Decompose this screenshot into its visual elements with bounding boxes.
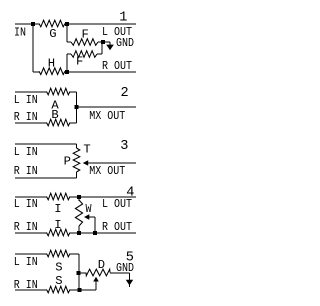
svg-text:S: S	[55, 274, 62, 288]
resistor F bottom	[71, 51, 97, 58]
wire vertical from G junction down to F top row	[66, 24, 68, 42]
svg-text:MX OUT: MX OUT	[89, 164, 125, 178]
wire B to mix junction	[70, 122, 77, 124]
svg-text:I: I	[54, 218, 61, 232]
ground symbol arrow	[129, 273, 131, 287]
wire sum node to resistor D	[79, 272, 86, 274]
node L OUT wire	[70, 196, 136, 198]
svg-text:L IN: L IN	[14, 145, 38, 159]
svg-text:R IN: R IN	[14, 278, 38, 292]
resistor S bottom	[47, 286, 71, 293]
wire F top to GND tap	[98, 41, 110, 43]
potentiometer wiper arrow	[83, 160, 88, 165]
svg-text:2: 2	[121, 86, 129, 101]
resistor B	[47, 119, 71, 126]
node IN wire	[15, 23, 39, 25]
node L IN wire	[15, 91, 47, 93]
resistor I bottom	[47, 229, 71, 236]
junction dot pot top	[77, 195, 81, 199]
junction dot sum node	[77, 271, 81, 275]
node R OUT wire	[70, 232, 136, 234]
node MX OUT wire	[77, 106, 137, 108]
potentiometer wiper arrow	[84, 214, 89, 219]
wire elbow to resistor F top	[67, 41, 71, 43]
svg-text:R IN: R IN	[14, 110, 38, 124]
node R IN wire	[15, 122, 47, 124]
wire S top to sum junction	[70, 253, 79, 255]
svg-text:3: 3	[120, 139, 128, 154]
wire H row to R OUT	[33, 71, 39, 73]
node L IN wire	[15, 196, 47, 198]
svg-text:R OUT: R OUT	[102, 59, 132, 73]
potentiometer W vertical	[78, 197, 80, 201]
junction dot mix node	[75, 105, 79, 109]
svg-text:L OUT: L OUT	[102, 197, 132, 211]
svg-text:IN: IN	[14, 25, 26, 39]
wire D to ground	[110, 272, 130, 274]
node L IN wire	[15, 253, 47, 255]
wire G to junction	[65, 23, 136, 25]
svg-text:L IN: L IN	[14, 197, 38, 211]
node R IN wire	[15, 289, 47, 291]
node R IN wire	[15, 232, 47, 234]
resistor F top	[71, 39, 98, 46]
junction dot wiper to R wire	[93, 231, 97, 235]
svg-text:S: S	[55, 261, 62, 275]
node L IN wire	[15, 143, 77, 145]
svg-text:MX OUT: MX OUT	[89, 109, 125, 123]
svg-text:R OUT: R OUT	[102, 220, 132, 234]
svg-text:P: P	[64, 154, 71, 168]
wire F bottom right elbow	[97, 53, 102, 55]
svg-text:R IN: R IN	[14, 220, 38, 234]
wire S bottom to sum junction	[70, 289, 96, 291]
wire vertical from GND junction down to F bottom row	[101, 44, 103, 54]
junction dot after H	[65, 70, 69, 74]
svg-text:F: F	[82, 27, 89, 41]
svg-text:1: 1	[119, 11, 127, 26]
svg-text:L IN: L IN	[14, 255, 38, 269]
svg-text:B: B	[51, 108, 58, 122]
wire vertical from IN junction down to H row	[32, 24, 34, 72]
junction dot at IN split	[31, 22, 35, 26]
wire F bottom left elbow down to R row	[67, 53, 71, 55]
junction dot pot bottom	[77, 231, 81, 235]
resistor G	[39, 20, 65, 27]
svg-text:T: T	[83, 142, 90, 156]
svg-text:H: H	[48, 57, 55, 71]
resistor D	[86, 269, 110, 276]
junction dot at GND tap	[101, 40, 105, 44]
svg-text:GND: GND	[116, 36, 134, 50]
resistor I top	[47, 193, 71, 200]
junction dot after G	[65, 22, 69, 26]
svg-text:GND: GND	[116, 261, 134, 275]
junction dot on R wire below wiper	[78, 288, 82, 292]
potentiometer P vertical	[76, 144, 78, 148]
svg-text:L IN: L IN	[14, 93, 38, 107]
ground symbol arrow	[109, 42, 111, 49]
resistor H	[39, 68, 65, 75]
resistor S top	[47, 250, 71, 257]
svg-text:F: F	[76, 54, 83, 68]
potentiometer D wiper arrow up	[95, 280, 97, 290]
svg-text:W: W	[86, 202, 93, 216]
node R IN wire	[15, 177, 77, 179]
svg-text:G: G	[49, 27, 56, 41]
node MX OUT wire	[88, 162, 137, 164]
wire A to mix junction	[70, 91, 77, 93]
resistor A	[47, 88, 71, 95]
svg-text:I: I	[54, 202, 61, 216]
svg-text:D: D	[98, 258, 105, 272]
svg-text:R IN: R IN	[14, 164, 38, 178]
